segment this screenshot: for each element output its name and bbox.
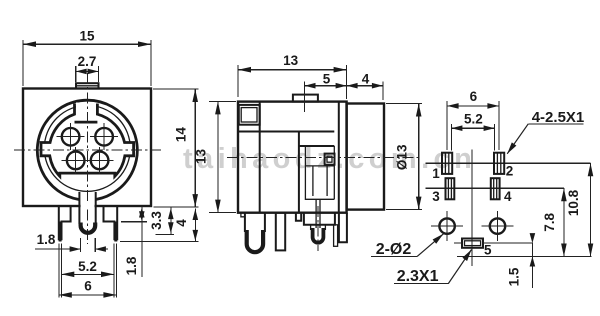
side view internal lines: [238, 102, 334, 213]
footprint right hole: [482, 211, 514, 241]
svg-text:15: 15: [79, 29, 95, 44]
side view front shield tab: [339, 213, 347, 243]
dimension 3.3 (leg step): [149, 207, 174, 234]
pad number 4: [504, 189, 512, 204]
dimension 1.5: [507, 233, 536, 288]
left view key slot bottom edge: [75, 121, 98, 124]
dimension 5.2 (leg spacing): [61, 259, 114, 277]
svg-text:3: 3: [432, 189, 440, 204]
pin hole 3 (front view): [62, 147, 90, 174]
left view top tab: [76, 83, 99, 88]
side view center block: [304, 213, 335, 225]
side view body: [238, 102, 347, 213]
svg-text:13: 13: [193, 149, 208, 165]
svg-text:1.8: 1.8: [37, 232, 56, 247]
dimension 6 (pad spacing): [447, 89, 499, 150]
side view flat pin: [276, 213, 285, 251]
footprint pad 2: [494, 153, 504, 174]
left view insulator aperture outline: [41, 104, 134, 177]
dimension 2.7 (tab width): [76, 54, 99, 82]
label 2-diameter-2 with leader: [371, 234, 444, 258]
svg-text:7.8: 7.8: [542, 213, 557, 232]
right mounting leg: [104, 206, 118, 242]
dimension 5.2 (pad inner spacing): [451, 112, 494, 151]
svg-text:5.2: 5.2: [78, 259, 97, 274]
shield U hook: [81, 223, 96, 233]
shield center tab lines: [79, 192, 95, 224]
label 4-2.5X1 with leader: [507, 109, 584, 154]
pad number 5: [484, 243, 492, 258]
svg-text:2: 2: [506, 164, 514, 179]
svg-text:6: 6: [470, 89, 478, 104]
dimension 15 (body width): [23, 29, 151, 87]
pin hole 2 (front view): [90, 123, 118, 150]
dimension 1.8 vertical (leg step height): [121, 207, 147, 278]
dimension 4 (barrel, side view): [347, 72, 383, 101]
side view top tab: [293, 95, 318, 102]
leg extension lines: [59, 244, 117, 298]
side view horizontal centerline: [227, 157, 420, 159]
pad number 1: [432, 166, 440, 181]
footprint left hole: [431, 211, 463, 241]
side view narrow pin: [334, 225, 338, 247]
watermark text: [183, 143, 476, 175]
left mounting leg: [59, 206, 71, 242]
label 2.3X1 with leader: [394, 250, 471, 286]
dimension 10.8: [566, 163, 594, 256]
svg-text:2-Ø2: 2-Ø2: [376, 241, 412, 258]
side view barrel: [347, 104, 384, 210]
svg-text:5: 5: [484, 243, 492, 258]
svg-text:1.8: 1.8: [124, 256, 139, 275]
dimension 1.8 horizontal (U hook width): [35, 232, 108, 252]
left view outer shield circle: [37, 100, 137, 199]
footprint vertical centerline: [471, 149, 473, 266]
side view contact box: [325, 154, 335, 165]
left view body: [23, 89, 151, 207]
svg-text:4: 4: [174, 219, 189, 227]
svg-text:6: 6: [84, 279, 92, 294]
svg-text:13: 13: [283, 53, 299, 68]
footprint row line 3-4: [426, 187, 564, 189]
dimension 14 (body height): [153, 89, 199, 207]
footprint pad 1: [442, 153, 452, 174]
svg-text:14: 14: [174, 127, 189, 143]
footprint bottom reference line: [457, 256, 592, 258]
dimension 13 vertical (body height, side view): [193, 101, 236, 212]
side view front plate line: [338, 102, 340, 213]
pin hole 4 (front view): [86, 147, 114, 174]
dimension 13 (body width, side view): [238, 53, 347, 99]
pin hole 1 (front view): [57, 123, 85, 150]
svg-text:10.8: 10.8: [566, 189, 581, 216]
left view horizontal centerline: [14, 149, 161, 151]
svg-text:1: 1: [432, 166, 440, 181]
svg-text:Ø13: Ø13: [395, 144, 410, 170]
footprint slot (pin 5): [454, 239, 533, 248]
pad number 3: [432, 189, 440, 204]
svg-text:2.7: 2.7: [78, 54, 97, 69]
dimension diameter 13 (barrel): [386, 104, 422, 210]
side view hook pin: [311, 200, 326, 252]
left view vertical centerline: [86, 73, 88, 244]
side view rear square detail: [239, 105, 260, 125]
dimension 4 (leg length): [120, 209, 199, 242]
left view shield rim circle: [41, 103, 135, 192]
svg-text:4: 4: [362, 72, 370, 87]
side view bottom step: [296, 213, 301, 221]
svg-text:5.2: 5.2: [464, 112, 483, 127]
footprint row line 1-2: [426, 162, 591, 164]
footprint pad 3: [446, 178, 455, 199]
svg-text:3.3: 3.3: [149, 211, 164, 230]
dimension 6 (leg outer span): [59, 279, 117, 298]
side view shield leg with hook: [241, 213, 265, 252]
svg-text:4: 4: [504, 189, 512, 204]
svg-text:1.5: 1.5: [507, 267, 522, 286]
svg-text:2.3X1: 2.3X1: [397, 268, 439, 285]
footprint pad 4: [491, 178, 500, 199]
svg-text:5: 5: [323, 72, 331, 87]
pad number 2: [506, 164, 514, 179]
dimension 5 (side view): [305, 72, 347, 112]
dimension 7.8: [542, 188, 567, 256]
